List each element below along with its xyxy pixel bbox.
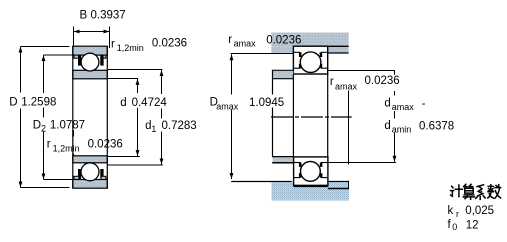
svg-text:D: D [9, 97, 17, 109]
svg-text:0.4724: 0.4724 [132, 97, 168, 109]
dimension Da extension top [231, 53, 293, 55]
shaft face vertical line [272, 70, 274, 157]
svg-text:0: 0 [452, 222, 457, 232]
dimension B line with arrows [74, 30, 110, 34]
label calculation factors (Chinese) [451, 184, 501, 199]
bearing upper outer ring [73, 46, 108, 58]
dimension da line [393, 71, 397, 162]
svg-text:r: r [228, 34, 232, 46]
bearing upper ball [81, 53, 99, 71]
dimension D2 extension lines [44, 54, 73, 56]
bearing upper gap bars [78, 55, 104, 66]
housing bottom step line [328, 188, 349, 190]
svg-text:1,2min: 1,2min [53, 144, 80, 154]
svg-text:amax: amax [392, 102, 415, 112]
svg-text:0.6378: 0.6378 [419, 120, 454, 132]
character 算 [464, 184, 473, 186]
dimension da extension top [328, 70, 395, 72]
svg-text:0.0236: 0.0236 [88, 138, 123, 150]
svg-text:12: 12 [466, 219, 479, 231]
character 数 [488, 185, 494, 198]
svg-text:0.3937: 0.3937 [91, 9, 126, 21]
character 系 [477, 185, 484, 196]
svg-text:d: d [120, 97, 126, 109]
svg-text:0.0236: 0.0236 [365, 75, 400, 87]
housing left shoulder block [271, 46, 293, 53]
character 计 [451, 186, 454, 196]
svg-text:amin: amin [392, 124, 412, 134]
dimension d1 line with arrows [160, 70, 164, 165]
shaft shoulder top [272, 70, 293, 78]
bearing lower ball [81, 163, 99, 181]
dimension Da line with arrows [230, 54, 234, 179]
svg-text:r: r [111, 39, 115, 51]
svg-text:amax: amax [335, 82, 358, 92]
svg-text:-: - [422, 98, 426, 110]
svg-text:0,025: 0,025 [465, 205, 494, 217]
svg-text:0.0236: 0.0236 [266, 34, 301, 46]
mounted bearing top section [293, 46, 327, 74]
svg-text:f: f [448, 219, 452, 231]
shaft shoulder bottom [272, 157, 293, 163]
svg-text:k: k [448, 205, 454, 217]
dimension D line with arrows [19, 47, 23, 188]
leader r amax right [348, 91, 350, 165]
bearing left face line [72, 46, 74, 188]
dimension da extension bottom [327, 162, 397, 164]
svg-text:amax: amax [234, 38, 257, 48]
svg-text:D: D [33, 120, 41, 132]
svg-text:1.0945: 1.0945 [249, 97, 284, 109]
svg-text:1,2min: 1,2min [117, 43, 144, 53]
dimension d1 extension lines [108, 69, 163, 71]
mounted bearing bottom section [294, 157, 328, 186]
bearing upper inner ring [73, 70, 108, 79]
svg-text:B: B [80, 9, 88, 21]
housing bore line right [328, 45, 349, 47]
housing bottom band top edge right [326, 181, 349, 183]
housing right step block [328, 46, 349, 53]
svg-text:r: r [456, 209, 459, 219]
svg-text:0.7283: 0.7283 [162, 120, 197, 132]
axis centerline [271, 116, 352, 118]
svg-text:0.0236: 0.0236 [152, 38, 187, 50]
svg-text:1.2598: 1.2598 [21, 97, 56, 109]
housing bottom band (stippled) [272, 182, 350, 200]
dimension D extension lines [21, 46, 70, 48]
svg-text:2: 2 [41, 124, 46, 134]
bearing bore lines between sections [292, 74, 294, 157]
dimension B extension lines [73, 27, 75, 47]
svg-text:1: 1 [151, 124, 156, 134]
housing top band [271, 33, 348, 47]
svg-text:r: r [47, 139, 51, 151]
svg-text:d: d [384, 97, 390, 109]
svg-text:amax: amax [216, 101, 239, 111]
housing bottom band top edge left [231, 181, 292, 183]
housing step bottom edge [328, 52, 349, 54]
dimension d line with arrows [136, 79, 140, 156]
dimension d extension lines [108, 78, 138, 80]
leader r 1,2min bottom [73, 130, 75, 156]
svg-text:r: r [330, 76, 334, 88]
bearing lower gap bars [78, 169, 104, 180]
bearing right face line [106, 46, 108, 188]
bearing lower inner ring [73, 156, 108, 163]
housing bottom band right edge [348, 181, 350, 190]
bearing lower outer ring [73, 176, 108, 188]
svg-text:d: d [384, 120, 390, 132]
dimension D2 line with arrows [42, 55, 46, 180]
svg-text:1.0787: 1.0787 [50, 120, 85, 132]
